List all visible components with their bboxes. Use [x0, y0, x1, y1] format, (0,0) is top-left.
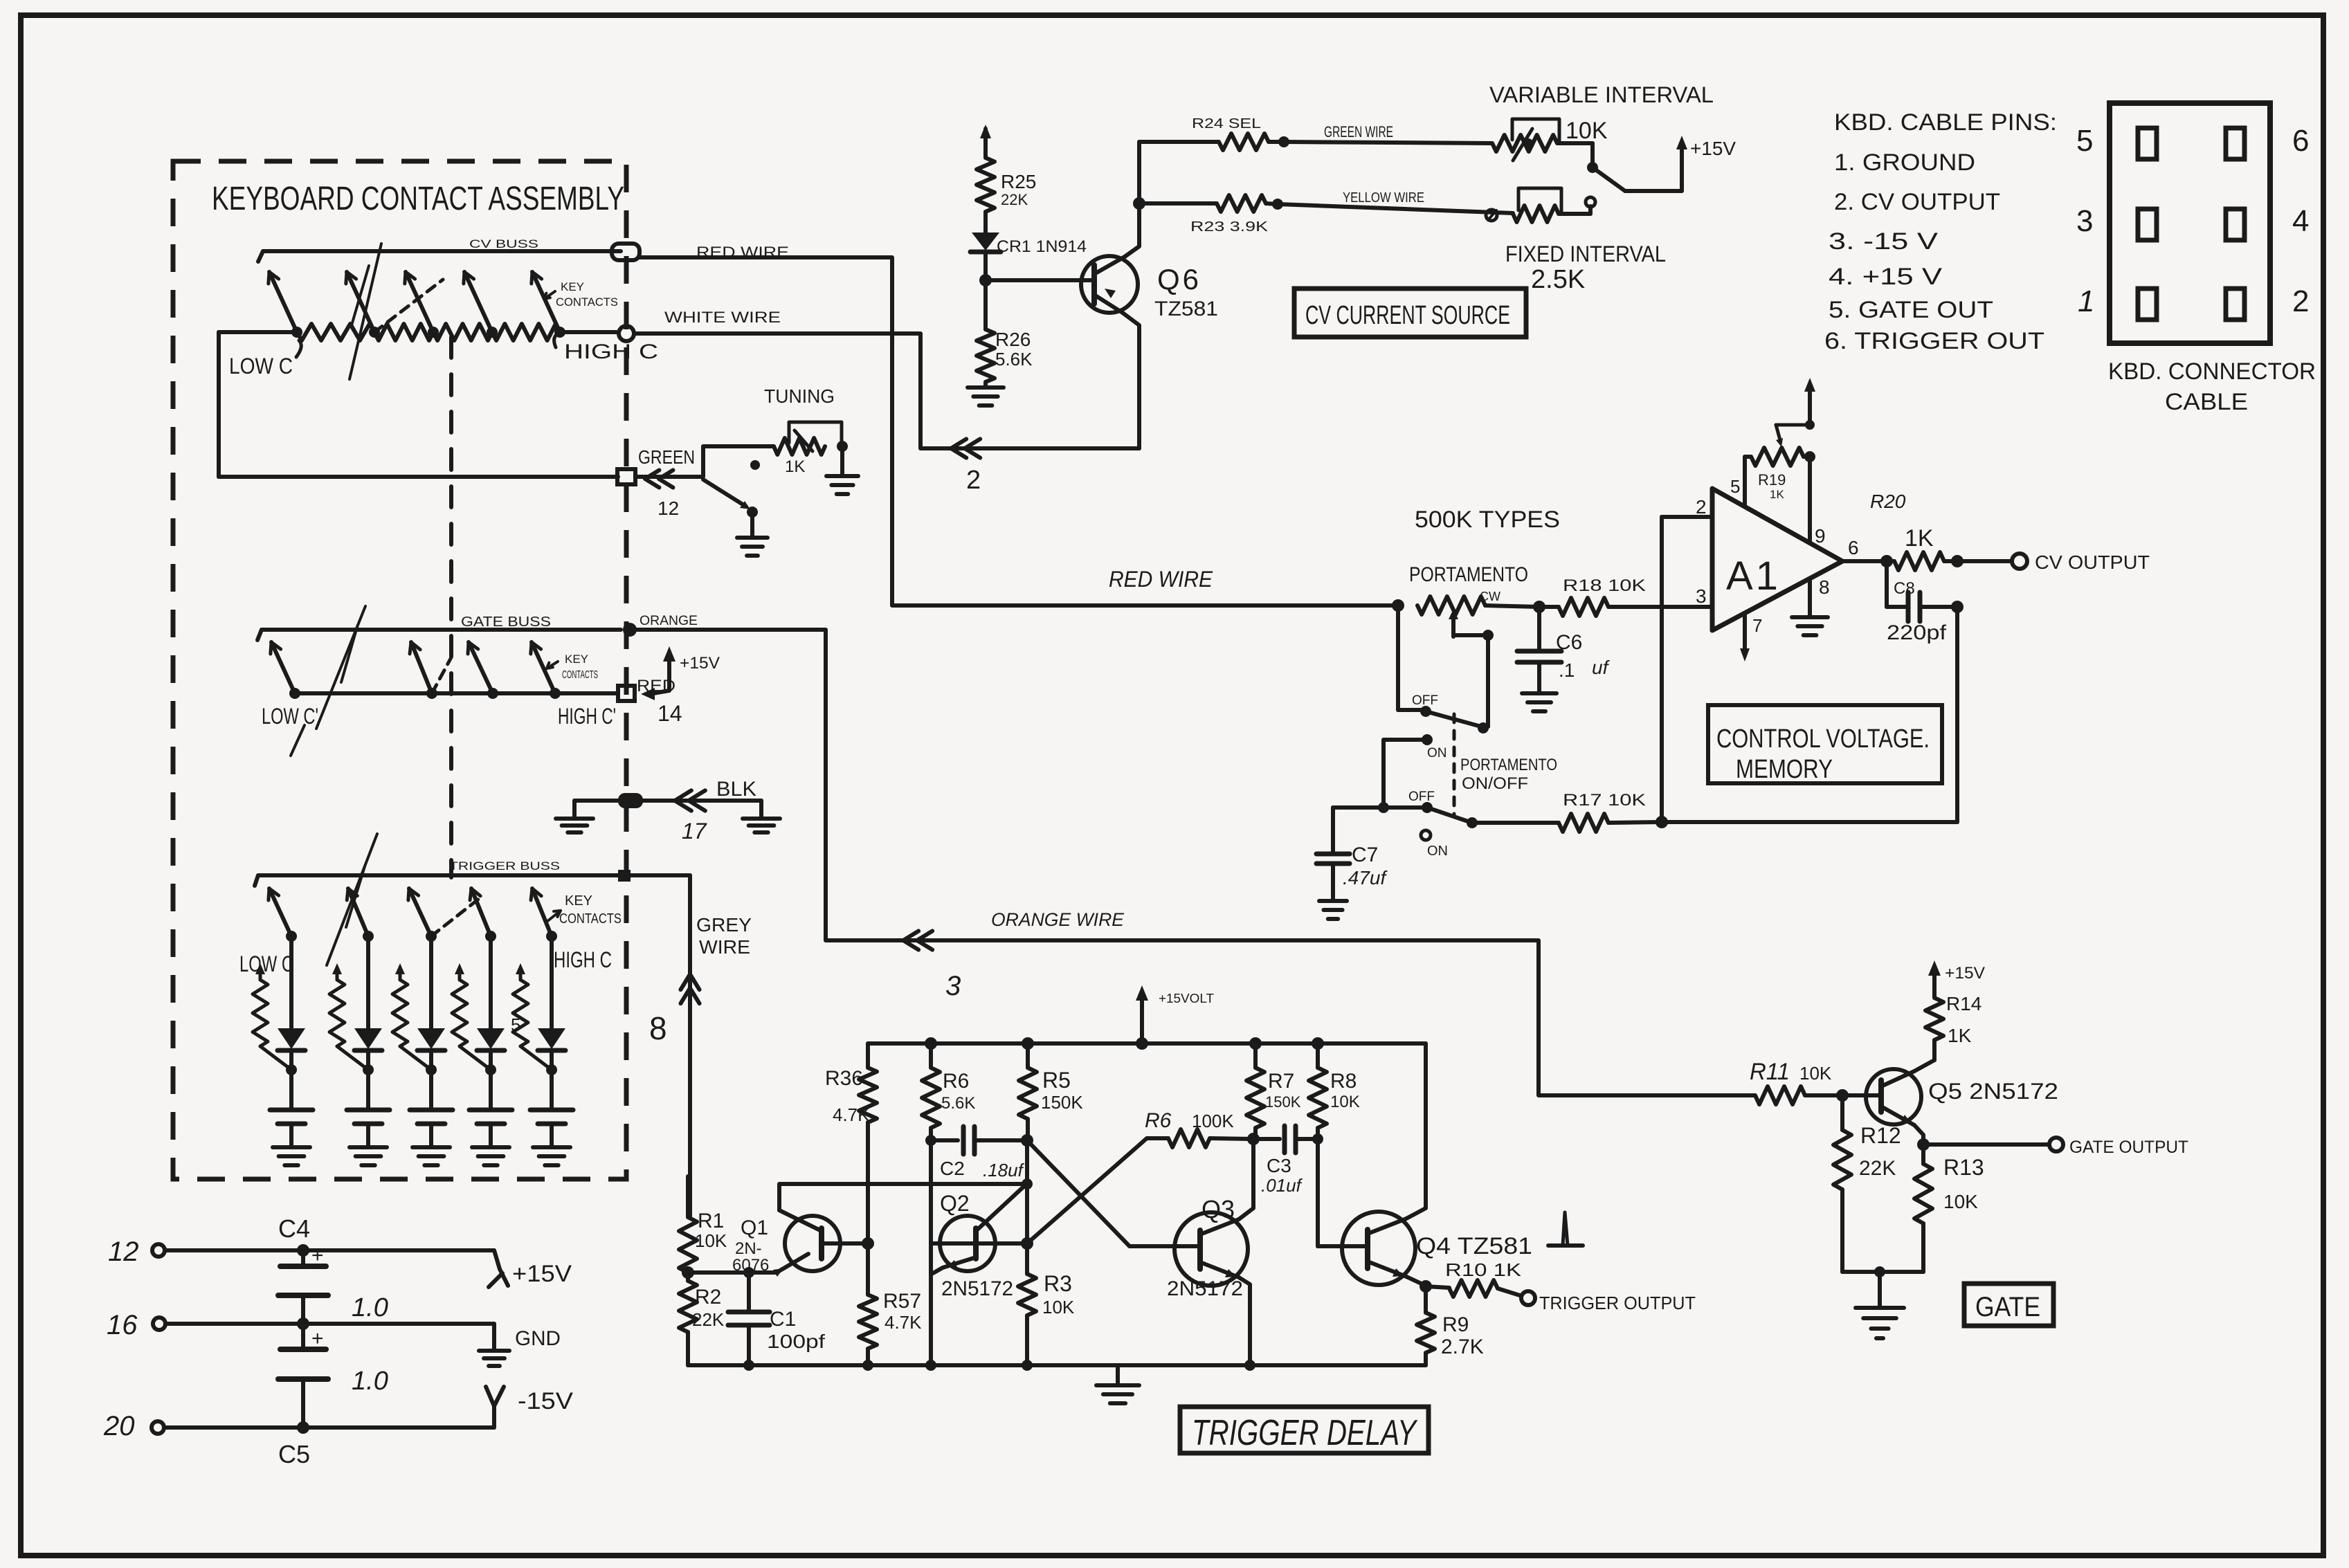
resistor R36 4.7K	[825, 1043, 877, 1295]
svg-text:WIRE: WIRE	[699, 936, 750, 958]
wire CR1 to base node	[979, 252, 992, 286]
svg-text:KEY: KEY	[565, 653, 588, 666]
label HIGH C' (gate)	[558, 704, 616, 729]
resistor R13 10K	[1914, 1145, 1984, 1272]
svg-text:4: 4	[2292, 204, 2309, 238]
key branch 2: ground	[350, 1147, 387, 1165]
key branch 4: resistor	[452, 963, 491, 1070]
svg-text:150K: 150K	[1265, 1093, 1301, 1111]
key branch 5: wire	[550, 936, 554, 1028]
svg-text:CABLE: CABLE	[2165, 389, 2248, 415]
wire pin 8 ground	[1810, 576, 1830, 616]
key contact switches (CV buss)	[269, 272, 565, 338]
svg-text:R5: R5	[1042, 1068, 1071, 1093]
svg-text:C3: C3	[1267, 1155, 1291, 1176]
capacitor C6 .1uf	[1517, 607, 1611, 692]
box TRIGGER DELAY	[1180, 1407, 1429, 1453]
svg-text:KBD. CABLE PINS:: KBD. CABLE PINS:	[1834, 109, 2057, 136]
key branch 1: resistor	[253, 963, 291, 1070]
power +15V tap	[489, 1250, 572, 1287]
svg-text:GND: GND	[515, 1327, 561, 1350]
wire green to tuning pot	[635, 446, 774, 477]
svg-text:R6: R6	[943, 1070, 969, 1093]
svg-text:GATE BUSS: GATE BUSS	[461, 614, 551, 630]
wire gate output	[1917, 1138, 2188, 1157]
potentiometer tuning 1K	[750, 422, 848, 476]
svg-text:R2: R2	[695, 1286, 721, 1309]
label WHITE WIRE	[664, 309, 781, 326]
svg-text:R24 SEL: R24 SEL	[1192, 116, 1261, 131]
svg-text:uf: uf	[1592, 657, 1611, 678]
svg-text:17: 17	[682, 819, 707, 844]
resistor R2 22K	[679, 1273, 725, 1365]
svg-text:100pf: 100pf	[767, 1331, 825, 1352]
svg-text:3: 3	[1696, 585, 1707, 607]
wire pin 6 output	[1842, 537, 1893, 567]
svg-text:Q1: Q1	[741, 1216, 768, 1239]
wire pin 9	[1810, 457, 1826, 547]
label C5	[278, 1440, 310, 1468]
ground (green wiper)	[737, 538, 768, 556]
svg-text:1K: 1K	[785, 457, 805, 476]
svg-text:R25: R25	[1001, 171, 1036, 192]
svg-text:KEYBOARD CONTACT ASSEMBLY: KEYBOARD CONTACT ASSEMBLY	[212, 181, 624, 217]
label RED WIRE (long run)	[1109, 567, 1213, 592]
svg-text:+15V: +15V	[1690, 138, 1736, 159]
feedthrough CV buss to red wire	[612, 244, 640, 260]
svg-text:TRIGGER DELAY: TRIGGER DELAY	[1192, 1413, 1418, 1453]
svg-text:2N-: 2N-	[735, 1239, 762, 1258]
svg-text:CR1 1N914: CR1 1N914	[997, 237, 1087, 256]
key branch 2: diode	[354, 1028, 382, 1075]
key branch 4: capacitor	[469, 1070, 512, 1146]
svg-text:A1: A1	[1726, 554, 1781, 599]
key branch 5: capacitor	[530, 1070, 573, 1146]
ground (black wire right)	[743, 819, 780, 832]
svg-text:CV CURRENT SOURCE: CV CURRENT SOURCE	[1305, 301, 1510, 330]
key contact switches (trigger buss)	[269, 888, 557, 942]
ground (black wire left)	[556, 819, 593, 832]
svg-text:1K: 1K	[1905, 525, 1934, 551]
svg-text:2: 2	[2292, 284, 2309, 318]
resistor R17 10K	[1472, 791, 1660, 832]
label 5 (key resistor)	[511, 1014, 520, 1035]
ground (pin 8)	[1792, 617, 1828, 635]
svg-text:2.5K: 2.5K	[1531, 265, 1585, 294]
wire pin 3 input	[1696, 585, 1707, 607]
wire green (R24 to 10K pot)	[1284, 123, 1492, 143]
svg-text:R1: R1	[698, 1210, 724, 1232]
wire white (to Q6 emitter)	[634, 334, 1139, 448]
wire Q5 emitter network bottom	[1842, 1266, 1923, 1306]
svg-text:C7: C7	[1352, 844, 1378, 866]
transistor Q1 2N6076	[688, 1216, 874, 1277]
wire memory loop bottom	[1662, 607, 1957, 822]
power +15V (interval switch)	[1676, 136, 1736, 191]
resistor R20 1K	[1870, 491, 1963, 570]
resistor R26 5.6K	[977, 280, 1033, 386]
label ORANGE WIRE	[991, 909, 1125, 930]
svg-text:10K: 10K	[1566, 118, 1608, 144]
svg-text:R12: R12	[1860, 1123, 1901, 1148]
wire gate buss	[257, 630, 621, 640]
svg-text:LOW C: LOW C	[229, 354, 293, 379]
wire +15 rail (trigger delay)	[868, 1041, 1426, 1046]
node orange junction	[623, 623, 637, 637]
resistor R7 150K	[1246, 1037, 1301, 1139]
resistor R11 10K	[1750, 1059, 1840, 1104]
terminal 16 (GND in)	[107, 1310, 494, 1340]
svg-text:3: 3	[945, 971, 961, 1001]
wire green buss return	[219, 332, 618, 477]
power -15V tap	[486, 1387, 573, 1428]
svg-text:.18uf: .18uf	[983, 1160, 1025, 1180]
wire orange (gate buss to R11)	[630, 630, 1755, 1095]
arrow 2 (white wire)	[951, 439, 981, 495]
op-amp A1	[1712, 489, 1842, 630]
label ORANGE	[640, 614, 698, 628]
ground (trigger delay rail)	[1096, 1365, 1139, 1403]
svg-text:OFF: OFF	[1408, 790, 1435, 804]
wire green wiper to ground	[703, 480, 758, 536]
svg-text:3: 3	[2076, 204, 2093, 238]
svg-text:R18 10K: R18 10K	[1563, 576, 1646, 595]
label FIXED INTERVAL 2.5K	[1505, 241, 1666, 294]
resistor R18 10K	[1533, 576, 1712, 616]
svg-text:TUNING: TUNING	[764, 385, 835, 407]
key contact switches (gate buss)	[271, 642, 561, 699]
power +15V (R19)	[1804, 378, 1815, 425]
svg-text:GATE OUTPUT: GATE OUTPUT	[2069, 1138, 2188, 1157]
resistor R24 SEL	[1139, 116, 1289, 150]
node R5/C2/cross	[1021, 1134, 1033, 1274]
ground (tuning pot)	[826, 446, 858, 494]
label Keyboard Contact Assembly	[212, 181, 624, 217]
svg-text:Q5 2N5172: Q5 2N5172	[1928, 1079, 2058, 1104]
power +15VOLT (trigger delay)	[1136, 985, 1214, 1050]
svg-text:12: 12	[108, 1237, 139, 1267]
key branch 2: wire	[366, 936, 370, 1028]
transistor Q6 TZ581	[1081, 203, 1218, 448]
svg-text:KEY: KEY	[561, 280, 584, 293]
box CONTROL VOLTAGE MEMORY	[1708, 705, 1942, 784]
svg-text:R13: R13	[1943, 1155, 1984, 1180]
label PORTAMENTO	[1409, 563, 1528, 586]
svg-text:R19: R19	[1758, 471, 1786, 489]
resistor R25 22K	[977, 158, 1036, 212]
key branch 1: wire	[289, 936, 293, 1028]
feedthrough red pin 14	[618, 677, 675, 701]
svg-text:C4: C4	[278, 1214, 310, 1243]
svg-text:150K: 150K	[1041, 1092, 1083, 1113]
break slash (CV section)	[350, 244, 381, 379]
key branch 2: resistor	[329, 963, 368, 1070]
wire Q6 base	[986, 278, 1091, 282]
svg-text:Q6: Q6	[1157, 263, 1201, 295]
svg-text:+: +	[311, 1244, 324, 1267]
label key contacts (CV)	[544, 280, 618, 309]
label GREY WIRE	[696, 914, 752, 958]
label PORTAMENTO ON/OFF	[1454, 714, 1557, 817]
svg-text:5: 5	[511, 1014, 520, 1035]
svg-text:220pf: 220pf	[1887, 621, 1947, 644]
label LOW C' (gate)	[262, 704, 318, 756]
svg-text:.01uf: .01uf	[1261, 1175, 1303, 1196]
svg-text:R36: R36	[825, 1067, 863, 1090]
svg-text:5: 5	[1730, 476, 1740, 497]
trigger pulse symbol	[1548, 1212, 1583, 1246]
transistor Q3 2N5172	[1167, 1139, 1253, 1365]
label KBD CONNECTOR CABLE	[2108, 358, 2316, 415]
svg-text:RED WIRE: RED WIRE	[1109, 567, 1213, 592]
capacitor C8 220pf	[1887, 561, 1963, 644]
label key contacts (gate)	[547, 653, 598, 681]
label 500K TYPES	[1415, 507, 1560, 533]
label KBD cable pins list	[1824, 109, 2057, 354]
key branch 3: wire	[429, 936, 433, 1028]
svg-text:R14: R14	[1946, 993, 1981, 1014]
svg-text:2: 2	[966, 466, 981, 495]
wire pin 7	[1740, 613, 1762, 662]
svg-text:12: 12	[657, 498, 679, 519]
potentiometer R19 1K	[1745, 420, 1815, 501]
svg-text:+15VOLT: +15VOLT	[1159, 992, 1214, 1005]
svg-text:C2: C2	[940, 1158, 965, 1179]
svg-text:22K: 22K	[1859, 1157, 1896, 1180]
svg-text:ORANGE: ORANGE	[640, 614, 698, 628]
wire grey (trigger buss to Q1)	[688, 875, 692, 1217]
svg-text:PORTAMENTO: PORTAMENTO	[1409, 563, 1528, 586]
svg-text:ON: ON	[1427, 844, 1448, 859]
switch portamento upper (OFF)	[1398, 605, 1494, 733]
resistor R9 2.7K	[1417, 1286, 1484, 1365]
svg-text:Q2: Q2	[940, 1191, 970, 1216]
key branch 4: ground	[472, 1147, 509, 1165]
feedthrough green wire pin 12	[617, 469, 635, 484]
svg-text:R6: R6	[1145, 1109, 1172, 1132]
wire black to ground right	[643, 778, 761, 844]
resistor R23 3.9K	[1139, 195, 1283, 235]
ground (gate circuit)	[1856, 1308, 1904, 1338]
svg-text:HIGH C: HIGH C	[554, 947, 612, 972]
svg-text:HIGH C: HIGH C	[564, 340, 658, 363]
label TRIGGER BUSS	[449, 859, 560, 873]
capacitor C3 .01uf	[1253, 1126, 1323, 1196]
arrow 12 (green wire)	[645, 470, 679, 519]
potentiometer variable interval 10K	[1492, 118, 1608, 161]
key branch 1: ground	[273, 1147, 310, 1165]
svg-text:R11: R11	[1750, 1059, 1790, 1085]
svg-text:10K: 10K	[1943, 1191, 1978, 1212]
svg-text:GREEN: GREEN	[638, 446, 695, 468]
svg-text:2N5172: 2N5172	[941, 1277, 1013, 1300]
power +15V (R14)	[1928, 960, 1985, 998]
svg-text:CONTROL VOLTAGE.: CONTROL VOLTAGE.	[1716, 724, 1930, 754]
svg-text:BLK: BLK	[716, 778, 756, 801]
resistor R8 10K	[1309, 1037, 1360, 1246]
svg-text:CV OUTPUT: CV OUTPUT	[2035, 551, 2150, 573]
svg-text:WHITE WIRE: WHITE WIRE	[664, 309, 781, 326]
resistor R57 4.7K	[859, 1290, 922, 1365]
capacitor C7 .47uf	[1316, 808, 1388, 900]
wire cross-couple to Q3 base	[1027, 1140, 1185, 1246]
svg-text:R8: R8	[1330, 1070, 1357, 1093]
resistor R1 10K	[679, 1176, 727, 1279]
transistor Q4 TZ581	[1318, 1043, 1532, 1293]
svg-text:R10 1K: R10 1K	[1445, 1259, 1522, 1280]
wire CV output	[1957, 551, 2150, 573]
terminal trigger output	[1521, 1291, 1696, 1313]
capacitor C1 100pf	[728, 1267, 825, 1371]
svg-text:CONTACTS: CONTACTS	[556, 295, 618, 309]
label RED WIRE (upper)	[696, 244, 789, 261]
key branch 1: diode	[278, 1028, 305, 1075]
svg-text:10K: 10K	[1042, 1297, 1075, 1318]
label C4	[278, 1214, 310, 1243]
svg-text:R3: R3	[1044, 1271, 1072, 1296]
svg-text:16: 16	[107, 1310, 138, 1340]
arrow 8 (grey wire)	[649, 974, 700, 1046]
wire cross-couple Q1 collector	[779, 1184, 1027, 1231]
svg-text:4. +15 V: 4. +15 V	[1829, 264, 1942, 290]
svg-text:1K: 1K	[1770, 488, 1784, 501]
svg-text:10K: 10K	[1330, 1093, 1360, 1111]
svg-text:8: 8	[649, 1010, 667, 1046]
svg-text:1.0: 1.0	[352, 1293, 388, 1322]
svg-text:OFF: OFF	[1412, 693, 1438, 708]
ground GND tap	[479, 1324, 561, 1366]
key branch 3: capacitor	[410, 1070, 453, 1146]
svg-text:R57: R57	[883, 1290, 921, 1313]
break slash (trigger section)	[327, 834, 377, 965]
svg-text:22K: 22K	[692, 1309, 725, 1330]
key branch 1: capacitor	[270, 1070, 313, 1146]
box CV CURRENT SOURCE	[1294, 289, 1526, 337]
terminal 20 (-15V in)	[103, 1411, 494, 1441]
key branch 3: ground	[412, 1147, 450, 1165]
wire CV buss	[258, 251, 621, 262]
pin labels KBD connector	[2076, 124, 2309, 318]
svg-text:6. TRIGGER OUT: 6. TRIGGER OUT	[1824, 328, 2044, 354]
svg-text:5: 5	[2076, 124, 2093, 158]
svg-text:1.0: 1.0	[352, 1367, 388, 1396]
svg-text:5. GATE OUT: 5. GATE OUT	[1829, 297, 1993, 323]
svg-text:CV BUSS: CV BUSS	[469, 237, 538, 250]
potentiometer portamento	[1392, 590, 1539, 637]
power +15V (gate buss pullup)	[641, 646, 720, 726]
svg-text:PORTAMENTO: PORTAMENTO	[1460, 756, 1557, 774]
wire trigger buss	[255, 875, 690, 886]
capacitor C2 .18uf	[925, 1127, 1026, 1180]
wire R25 to CR1	[983, 212, 988, 233]
ground (R26)	[968, 388, 1004, 405]
svg-text:1. GROUND: 1. GROUND	[1834, 149, 1975, 176]
svg-text:1: 1	[2078, 284, 2094, 318]
box GATE	[1964, 1284, 2053, 1326]
dashed divider (octave split)	[449, 337, 453, 877]
capacitor C4 1.0	[278, 1244, 388, 1324]
label TUNING	[764, 385, 835, 407]
svg-text:20: 20	[103, 1411, 135, 1441]
svg-text:-15V: -15V	[518, 1388, 573, 1414]
connector KBD cable	[2110, 103, 2270, 343]
svg-text:+: +	[311, 1327, 324, 1350]
wire red (CV buss to portamento)	[640, 257, 1398, 605]
svg-text:8: 8	[1819, 576, 1830, 598]
svg-text:VARIABLE INTERVAL: VARIABLE INTERVAL	[1489, 82, 1714, 107]
label GATE BUSS	[461, 614, 551, 630]
label HIGH C (CV)	[554, 334, 658, 363]
key branch 5: resistor	[513, 963, 552, 1070]
svg-text:LOW C: LOW C	[239, 951, 293, 976]
wire ground rail (trigger delay)	[688, 1360, 1426, 1371]
svg-text:C6: C6	[1556, 631, 1582, 654]
svg-text:GATE: GATE	[1975, 1292, 2040, 1322]
svg-text:TRIGGER BUSS: TRIGGER BUSS	[449, 859, 560, 873]
svg-text:9: 9	[1815, 525, 1826, 547]
resistor chain (keyboard CV divider)	[219, 324, 619, 340]
svg-text:1K: 1K	[1948, 1025, 1972, 1046]
svg-text:R7: R7	[1268, 1070, 1294, 1093]
label CV BUSS	[469, 237, 538, 250]
svg-text:R23 3.9K: R23 3.9K	[1190, 219, 1269, 235]
svg-text:2. CV OUTPUT: 2. CV OUTPUT	[1834, 189, 2000, 215]
svg-text:CONTACTS: CONTACTS	[562, 669, 598, 681]
svg-text:TRIGGER OUTPUT: TRIGGER OUTPUT	[1539, 1293, 1696, 1313]
resistor R14 1K	[1925, 993, 1981, 1060]
svg-text:2.7K: 2.7K	[1441, 1335, 1484, 1358]
resistor R3 10K	[1018, 1271, 1075, 1365]
ground (C6)	[1522, 693, 1557, 711]
svg-text:R20: R20	[1870, 491, 1906, 512]
key branch 3: diode	[417, 1028, 445, 1075]
node trigger buss to grey wire	[618, 870, 631, 882]
svg-text:Q3: Q3	[1201, 1195, 1235, 1223]
svg-text:+15V: +15V	[1945, 964, 1985, 983]
svg-text:10K: 10K	[1799, 1063, 1832, 1084]
arrow 3 (orange wire)	[903, 931, 961, 1001]
resistor R5 150K	[1019, 1037, 1083, 1140]
svg-text:100K: 100K	[1192, 1111, 1234, 1131]
wire pin 5	[1730, 457, 1745, 506]
svg-text:C8: C8	[1894, 579, 1915, 598]
resistor R10 1K	[1426, 1259, 1522, 1297]
resistor R12 22K	[1833, 1095, 1901, 1272]
svg-text:2: 2	[1696, 496, 1707, 518]
svg-text:5.6K: 5.6K	[941, 1094, 975, 1113]
svg-text:.47uf: .47uf	[1343, 867, 1388, 888]
svg-text:HIGH C': HIGH C'	[558, 704, 616, 729]
key branch 5: diode	[538, 1028, 565, 1075]
diode CR1 1N914	[970, 233, 1087, 256]
ground (C7)	[1319, 901, 1347, 919]
svg-text:LOW C': LOW C'	[262, 704, 318, 729]
resistor R6 100K (cross)	[1145, 1109, 1260, 1147]
svg-text:KBD. CONNECTOR: KBD. CONNECTOR	[2108, 358, 2316, 385]
svg-text:MEMORY: MEMORY	[1736, 755, 1833, 784]
svg-text:CW: CW	[1480, 590, 1500, 603]
keyboard contact assembly dashed box	[173, 161, 626, 1179]
svg-text:R26: R26	[995, 329, 1031, 350]
label LOW C (CV)	[229, 340, 301, 379]
wire gate contact line	[295, 691, 618, 695]
svg-text:R9: R9	[1442, 1313, 1469, 1336]
switch interval select	[1557, 143, 1682, 207]
wire pin 2 feedback	[1656, 496, 1712, 828]
svg-text:500K TYPES: 500K TYPES	[1415, 507, 1560, 533]
feedthrough white wire	[619, 326, 634, 341]
svg-text:+15V: +15V	[512, 1261, 572, 1287]
